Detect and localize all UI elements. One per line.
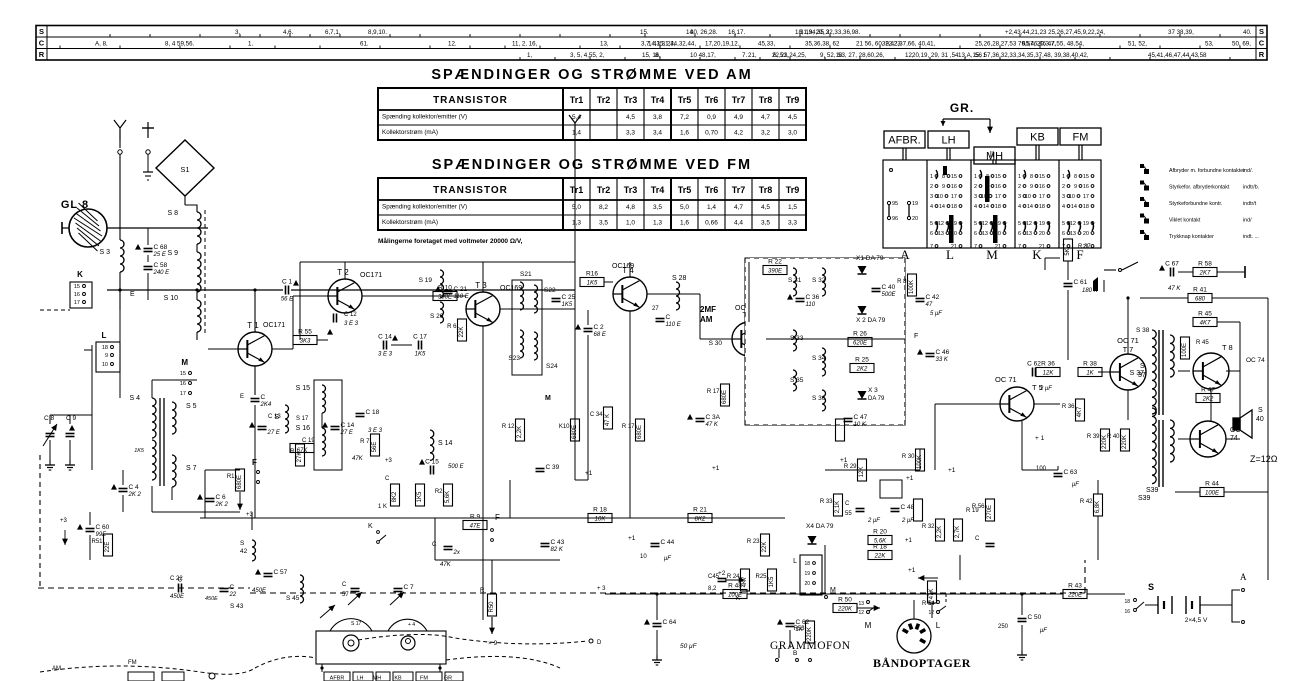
svg-text:450E: 450E	[205, 596, 218, 602]
svg-text:1K5: 1K5	[587, 281, 598, 287]
svg-text:17,20,19,12.: 17,20,19,12.	[705, 41, 740, 48]
svg-text:15.: 15.	[640, 29, 649, 36]
svg-text:4,8: 4,8	[626, 204, 635, 211]
svg-text:10 K: 10 K	[854, 422, 867, 428]
svg-text:R 44: R 44	[1205, 481, 1219, 488]
svg-text:15: 15	[74, 284, 80, 290]
svg-text:S 4: S 4	[129, 395, 140, 402]
svg-text:12K: 12K	[1043, 371, 1055, 377]
svg-text:2,1K: 2,1K	[835, 501, 841, 513]
svg-text:C 7: C 7	[404, 584, 415, 591]
svg-text:C 42: C 42	[926, 294, 940, 301]
svg-text:OC171: OC171	[360, 272, 382, 279]
svg-text:FM: FM	[1073, 132, 1089, 144]
svg-text:12: 12	[982, 221, 988, 227]
svg-text:12.: 12.	[448, 41, 457, 48]
svg-text:1,0: 1,0	[626, 220, 635, 227]
svg-text:17: 17	[951, 194, 957, 200]
svg-text:X 3: X 3	[868, 387, 878, 394]
svg-text:S22: S22	[544, 287, 556, 294]
svg-text:AM: AM	[52, 666, 61, 672]
svg-text:22K: 22K	[874, 554, 887, 560]
svg-text:1,: 1,	[527, 52, 532, 59]
svg-text:C 60: C 60	[96, 524, 110, 531]
svg-text:9: 9	[1030, 184, 1033, 190]
svg-text:51, 52,: 51, 52,	[1128, 41, 1147, 48]
svg-text:3 E 3: 3 E 3	[378, 352, 393, 358]
svg-text:C: C	[975, 536, 980, 542]
svg-text:C: C	[432, 542, 437, 548]
svg-text:C 44: C 44	[661, 539, 675, 546]
svg-text:13: 13	[1026, 231, 1032, 237]
svg-text:1,6: 1,6	[680, 220, 689, 227]
svg-text:5,0: 5,0	[572, 204, 581, 211]
svg-text:15, 16,: 15, 16,	[642, 52, 661, 59]
svg-text:R 18: R 18	[593, 507, 607, 514]
svg-text:S39: S39	[1146, 487, 1159, 494]
svg-text:C 68: C 68	[154, 244, 168, 251]
svg-text:AM: AM	[700, 315, 713, 324]
svg-text:27 E: 27 E	[340, 430, 354, 436]
svg-text:R 39: R 39	[1087, 434, 1100, 440]
svg-text:S 9: S 9	[167, 250, 178, 257]
svg-text:2 μF: 2 μF	[1039, 386, 1052, 392]
svg-text:4,5: 4,5	[626, 114, 635, 121]
svg-text:R 20: R 20	[873, 529, 887, 536]
svg-text:+1: +1	[628, 535, 636, 542]
svg-text:16,17.: 16,17.	[728, 29, 745, 36]
svg-text:S39: S39	[1138, 495, 1151, 502]
svg-text:C 43: C 43	[551, 539, 565, 546]
svg-text:10: 10	[1025, 194, 1031, 200]
svg-text:R 21: R 21	[693, 507, 707, 514]
svg-text:S 5: S 5	[186, 403, 197, 410]
svg-text:+1: +1	[905, 538, 913, 544]
svg-text:indtr/b.: indtr/b.	[1243, 185, 1259, 191]
svg-text:1: 1	[1018, 174, 1021, 180]
svg-text:15: 15	[1039, 174, 1045, 180]
svg-text:M: M	[986, 247, 998, 262]
svg-text:110 E: 110 E	[666, 322, 682, 328]
svg-text:Spænding kollektor/emitter (V): Spænding kollektor/emitter (V)	[382, 114, 467, 121]
svg-text:45,41,46,47,44,43,58: 45,41,46,47,44,43,58	[1148, 52, 1207, 59]
svg-text:8,9,10.: 8,9,10.	[368, 29, 387, 36]
svg-text:15: 15	[951, 174, 957, 180]
svg-text:R 22: R 22	[768, 259, 782, 266]
svg-text:13: 13	[1070, 231, 1076, 237]
svg-text:S 28: S 28	[672, 275, 687, 282]
svg-text:2,2K: 2,2K	[937, 526, 943, 538]
svg-text:2 μF: 2 μF	[867, 518, 880, 524]
svg-text:S: S	[1148, 582, 1154, 592]
svg-text:C 8: C 8	[44, 415, 55, 422]
svg-text:R 37: R 37	[1078, 244, 1091, 250]
svg-text:Spænding kollektor/emitter (V): Spænding kollektor/emitter (V)	[382, 204, 467, 211]
svg-text:20: 20	[1039, 231, 1045, 237]
svg-text:R 25: R 25	[855, 357, 869, 364]
svg-text:16: 16	[1083, 184, 1089, 190]
svg-text:R 6: R 6	[447, 324, 457, 330]
svg-text:450E: 450E	[170, 594, 185, 600]
svg-text:K10: K10	[559, 424, 570, 430]
svg-text:S 43: S 43	[230, 603, 244, 610]
svg-text:18: 18	[804, 561, 810, 567]
svg-text:R 42: R 42	[1080, 499, 1093, 505]
svg-text:T 8: T 8	[1222, 343, 1233, 352]
svg-text:4,4: 4,4	[734, 220, 743, 227]
svg-text:3: 3	[1062, 194, 1065, 200]
svg-text:FM: FM	[420, 676, 428, 681]
svg-text:S 19: S 19	[419, 277, 433, 284]
svg-text:20: 20	[912, 216, 918, 222]
svg-text:1,5: 1,5	[788, 204, 797, 211]
svg-text:680E: 680E	[572, 425, 578, 439]
svg-text:14: 14	[939, 204, 945, 210]
svg-text:3: 3	[974, 194, 977, 200]
svg-text:2K 2: 2K 2	[128, 492, 142, 498]
svg-text:KB: KB	[1030, 132, 1045, 144]
svg-text:S 16: S 16	[296, 425, 311, 432]
svg-text:0,70: 0,70	[705, 130, 718, 137]
svg-text:1K5: 1K5	[769, 576, 775, 587]
svg-text:10: 10	[640, 554, 647, 560]
svg-text:R: R	[39, 50, 45, 59]
svg-text:19: 19	[1083, 221, 1089, 227]
svg-text:S: S	[274, 414, 279, 421]
svg-text:S24: S24	[546, 363, 558, 370]
svg-text:AFBR.: AFBR.	[888, 135, 920, 147]
svg-text:R 41: R 41	[1193, 287, 1207, 294]
svg-text:Afbryder m. forbundne kontakte: Afbryder m. forbundne kontakter	[1169, 168, 1245, 174]
svg-text:17: 17	[180, 391, 186, 397]
svg-text:ind/: ind/	[1243, 218, 1252, 224]
svg-text:S 10: S 10	[164, 295, 179, 302]
svg-text:R1: R1	[227, 474, 235, 480]
svg-text:R 30: R 30	[902, 454, 915, 460]
svg-text:R2: R2	[435, 489, 443, 495]
svg-text:R 17: R 17	[622, 424, 635, 430]
svg-text:13,: 13,	[600, 41, 609, 48]
svg-text:7,2: 7,2	[680, 114, 689, 121]
svg-text:Tr5: Tr5	[678, 95, 692, 105]
svg-text:22E: 22E	[105, 542, 111, 553]
svg-text:KB: KB	[394, 676, 402, 681]
svg-text:22,23,24,25,: 22,23,24,25,	[772, 52, 807, 59]
svg-text:indtr/t: indtr/t	[1243, 201, 1257, 207]
svg-text:Tr7: Tr7	[732, 185, 746, 195]
svg-text:8,2: 8,2	[708, 586, 717, 592]
svg-text:14: 14	[983, 204, 989, 210]
svg-text:S 38: S 38	[1136, 327, 1150, 334]
svg-text:0,66: 0,66	[705, 220, 718, 227]
svg-text:67K: 67K	[297, 448, 309, 454]
svg-text:2MF: 2MF	[700, 305, 716, 314]
svg-text:C 17: C 17	[413, 334, 427, 341]
svg-text:LH: LH	[356, 676, 363, 681]
svg-text:65,46,66 47,55, 48,54,: 65,46,66 47,55, 48,54,	[1022, 41, 1084, 48]
svg-text:100: 100	[1036, 466, 1047, 472]
svg-text:13: 13	[982, 231, 988, 237]
svg-text:C 3A: C 3A	[706, 414, 721, 421]
svg-text:Tr3: Tr3	[624, 185, 638, 195]
svg-text:C 22: C 22	[170, 576, 183, 582]
svg-text:R 47: R 47	[1201, 387, 1215, 394]
svg-text:Trykknap kontakter: Trykknap kontakter	[1169, 234, 1214, 240]
svg-text:3,5: 3,5	[653, 204, 662, 211]
svg-text:7: 7	[1018, 244, 1021, 250]
svg-text:95: 95	[892, 201, 898, 207]
svg-text:C 19: C 19	[302, 438, 315, 444]
svg-text:R 58: R 58	[1198, 261, 1212, 268]
svg-text:S21: S21	[520, 271, 532, 278]
svg-text:16: 16	[951, 184, 957, 190]
svg-text:19: 19	[1039, 221, 1045, 227]
svg-text:E: E	[240, 394, 244, 400]
svg-text:E: E	[130, 291, 135, 298]
svg-text:8: 8	[1030, 174, 1033, 180]
svg-text:C 2: C 2	[594, 324, 605, 331]
svg-text:C: C	[385, 476, 390, 482]
svg-text:S 17: S 17	[351, 621, 362, 627]
svg-text:C 6: C 6	[216, 494, 227, 501]
svg-text:100E: 100E	[1205, 491, 1220, 497]
svg-text:47 K: 47 K	[605, 414, 611, 426]
svg-text:5: 5	[930, 221, 933, 227]
svg-text:1,6: 1,6	[680, 130, 689, 137]
svg-text:16: 16	[1039, 184, 1045, 190]
svg-text:C 62: C 62	[1027, 361, 1041, 368]
svg-text:82 K: 82 K	[551, 547, 564, 553]
svg-text:2K2: 2K2	[1202, 397, 1214, 403]
svg-text:5: 5	[1018, 221, 1021, 227]
svg-text:18: 18	[1039, 204, 1045, 210]
svg-text:10 48,17,: 10 48,17,	[690, 52, 716, 59]
svg-text:+1: +1	[840, 457, 848, 464]
svg-text:2: 2	[930, 184, 933, 190]
svg-text:S 45: S 45	[286, 595, 300, 602]
svg-text:R25: R25	[755, 574, 767, 580]
svg-text:SPÆNDINGER OG STRØMME VED: SPÆNDINGER OG STRØMME VED FM	[432, 157, 752, 173]
svg-text:S: S	[1259, 27, 1264, 36]
svg-text:Tr6: Tr6	[705, 95, 719, 105]
svg-text:17: 17	[1083, 194, 1089, 200]
svg-text:2K4: 2K4	[260, 402, 272, 408]
svg-text:220K: 220K	[807, 627, 813, 641]
svg-text:M: M	[865, 621, 872, 630]
svg-text:4,9: 4,9	[734, 114, 743, 121]
svg-text:BÅNDOPTAGER: BÅNDOPTAGER	[873, 656, 971, 670]
svg-text:40: 40	[1256, 416, 1264, 423]
svg-text:2K2: 2K2	[856, 367, 868, 373]
svg-text:39,42,37,66, 40,41,: 39,42,37,66, 40,41,	[882, 41, 936, 48]
svg-text:47 K: 47 K	[706, 422, 719, 428]
svg-text:390E: 390E	[768, 269, 783, 275]
svg-text:42: 42	[240, 548, 248, 555]
svg-text:3,8: 3,8	[653, 114, 662, 121]
svg-text:30, 26,28.: 30, 26,28.	[690, 29, 718, 36]
svg-text:4K7: 4K7	[1077, 406, 1083, 417]
svg-text:220K: 220K	[1122, 435, 1128, 449]
svg-text:14: 14	[1071, 204, 1077, 210]
svg-text:61.: 61.	[360, 41, 369, 48]
svg-text:S 34: S 34	[812, 355, 826, 362]
svg-text:2×4,5 V: 2×4,5 V	[1185, 617, 1208, 624]
svg-text:AFBR: AFBR	[330, 676, 345, 681]
svg-text:2: 2	[974, 184, 977, 190]
svg-text:T 2: T 2	[337, 268, 349, 277]
svg-text:R 23: R 23	[747, 539, 760, 545]
svg-text:53,: 53,	[1205, 41, 1214, 48]
svg-text:4: 4	[1018, 204, 1021, 210]
svg-text:C 48: C 48	[901, 504, 915, 511]
svg-text:3: 3	[930, 194, 933, 200]
svg-text:13: 13	[928, 601, 934, 607]
svg-text:5K: 5K	[1065, 248, 1071, 255]
svg-text:C 18: C 18	[366, 409, 380, 416]
svg-text:4K7: 4K7	[742, 576, 748, 587]
svg-text:15: 15	[1083, 174, 1089, 180]
svg-text:S1: S1	[180, 165, 189, 174]
svg-text:33 K: 33 K	[936, 357, 949, 363]
svg-text:500E: 500E	[882, 292, 897, 298]
svg-text:MH: MH	[986, 151, 1003, 163]
svg-text:6: 6	[974, 231, 977, 237]
svg-text:100K: 100K	[909, 280, 915, 294]
svg-text:C 15: C 15	[425, 459, 439, 466]
svg-text:5,6K: 5,6K	[445, 491, 451, 503]
svg-text:10: 10	[1069, 194, 1075, 200]
svg-text:19: 19	[804, 571, 810, 577]
svg-text:20: 20	[1083, 231, 1089, 237]
svg-text:R 43: R 43	[1068, 583, 1082, 590]
svg-text:3,4: 3,4	[653, 130, 662, 137]
svg-text:1,4: 1,4	[707, 204, 716, 211]
svg-text:+1: +1	[948, 467, 956, 474]
svg-text:TRANSISTOR: TRANSISTOR	[433, 95, 508, 106]
svg-text:GR: GR	[444, 676, 452, 681]
svg-text:Kollektorstrøm (mA): Kollektorstrøm (mA)	[382, 219, 438, 226]
svg-text:X4 DA 79: X4 DA 79	[806, 523, 834, 530]
svg-text:Tr6: Tr6	[705, 185, 719, 195]
svg-text:3 E 3: 3 E 3	[368, 428, 383, 434]
svg-text:K: K	[1032, 247, 1042, 262]
svg-text:R 26: R 26	[853, 331, 867, 338]
svg-text:13: 13	[858, 601, 864, 607]
svg-text:Tr7: Tr7	[732, 95, 746, 105]
svg-text:L: L	[102, 331, 107, 340]
svg-text:K: K	[368, 523, 373, 530]
svg-text:Tr1: Tr1	[570, 185, 584, 195]
svg-text:6,7,1,: 6,7,1,	[325, 29, 341, 36]
svg-text:500 E: 500 E	[448, 464, 465, 470]
svg-text:55: 55	[845, 511, 852, 517]
svg-text:Styrkefor. afbryderkontakt: Styrkefor. afbryderkontakt	[1169, 185, 1230, 191]
svg-text:3,2: 3,2	[761, 130, 770, 137]
svg-text:Tr4: Tr4	[651, 95, 665, 105]
svg-text:4K7: 4K7	[1200, 321, 1211, 327]
svg-text:25 E: 25 E	[153, 252, 167, 258]
svg-text:L: L	[946, 247, 954, 262]
svg-text:F: F	[914, 333, 918, 340]
svg-text:R 38: R 38	[1083, 361, 1097, 368]
svg-text:+3: +3	[385, 458, 393, 464]
svg-text:3,3: 3,3	[626, 130, 635, 137]
svg-text:× 9: × 9	[488, 640, 498, 647]
svg-text:C 36: C 36	[806, 294, 820, 301]
svg-text:1,3: 1,3	[572, 220, 581, 227]
svg-text:680E: 680E	[237, 475, 243, 489]
svg-text:D: D	[597, 640, 602, 646]
svg-text:A: A	[1240, 572, 1247, 582]
svg-text:37: 37	[1138, 372, 1146, 379]
svg-text:C 34: C 34	[590, 412, 603, 418]
svg-text:3,0: 3,0	[788, 130, 797, 137]
svg-text:μF: μF	[1071, 482, 1079, 488]
svg-text:20,19, 29, 31 ,54: 20,19, 29, 31 ,54	[912, 52, 959, 59]
svg-text:4: 4	[1062, 204, 1065, 210]
svg-text:18: 18	[995, 204, 1001, 210]
svg-text:110 E: 110 E	[454, 294, 470, 300]
svg-text:C 64: C 64	[663, 619, 677, 626]
svg-text:1K5: 1K5	[417, 491, 423, 502]
svg-text:620E: 620E	[853, 341, 868, 347]
svg-text:2K7: 2K7	[1199, 271, 1211, 277]
svg-text:II: II	[990, 150, 994, 159]
svg-text:2,7K: 2,7K	[955, 526, 961, 538]
svg-text:16: 16	[995, 184, 1001, 190]
svg-text:R 9: R 9	[470, 514, 481, 521]
svg-text:47E: 47E	[470, 524, 482, 530]
svg-text:0,9: 0,9	[707, 114, 716, 121]
svg-text:220K: 220K	[837, 607, 853, 613]
svg-text:56 E: 56 E	[281, 297, 294, 303]
svg-text:7: 7	[974, 244, 977, 250]
svg-text:20: 20	[804, 581, 810, 587]
svg-text:Kollektorstrøm (mA): Kollektorstrøm (mA)	[382, 129, 438, 136]
svg-text:47K: 47K	[352, 456, 364, 462]
svg-text:47: 47	[926, 302, 933, 308]
svg-text:K: K	[77, 270, 83, 279]
svg-text:13: 13	[938, 231, 944, 237]
svg-text:22: 22	[229, 592, 237, 598]
svg-text:Målingerne foretaget med voltm: Målingerne foretaget med voltmeter 20000…	[378, 237, 523, 245]
svg-text:F: F	[252, 458, 257, 467]
svg-text:8K2: 8K2	[695, 517, 706, 523]
svg-text:10K: 10K	[595, 517, 607, 523]
svg-text:1K5: 1K5	[562, 302, 573, 308]
svg-text:1K5: 1K5	[415, 352, 426, 358]
svg-text:53, 27, 28,60,26,: 53, 27, 28,60,26,	[838, 52, 885, 59]
svg-text:Styrkeforbundne kontr.: Styrkeforbundne kontr.	[1169, 201, 1222, 207]
svg-text:S23: S23	[508, 355, 520, 362]
svg-text:R 33: R 33	[820, 499, 833, 505]
svg-text:3,5: 3,5	[599, 220, 608, 227]
svg-text:OC169: OC169	[612, 263, 634, 270]
svg-text:4: 4	[974, 204, 977, 210]
svg-text:1K5: 1K5	[134, 448, 145, 454]
svg-text:C: C	[39, 38, 45, 47]
svg-text:10: 10	[102, 362, 108, 368]
svg-text:R 40: R 40	[1107, 434, 1120, 440]
svg-text:+1: +1	[908, 567, 916, 574]
svg-text:R 32: R 32	[922, 524, 935, 530]
svg-text:T 1: T 1	[247, 321, 259, 330]
svg-text:680E: 680E	[722, 390, 728, 404]
svg-text:T 3: T 3	[475, 281, 487, 290]
svg-text:C: C	[261, 394, 266, 401]
svg-text:1K: 1K	[1086, 371, 1094, 377]
svg-text:17: 17	[1039, 194, 1045, 200]
